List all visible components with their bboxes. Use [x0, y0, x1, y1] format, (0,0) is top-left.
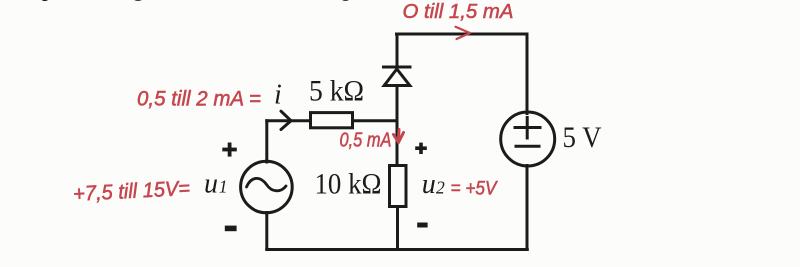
svg-text:0,5 mA: 0,5 mA [340, 129, 392, 152]
svg-text:1: 1 [219, 176, 228, 196]
svg-text:O till 1,5 mA: O till 1,5 mA [403, 1, 514, 23]
svg-text:i: i [274, 80, 282, 111]
svg-text:0,5 till 2 mA =: 0,5 till 2 mA = [137, 88, 261, 111]
svg-text:5 kΩ: 5 kΩ [309, 75, 364, 108]
svg-text:u: u [422, 169, 436, 200]
svg-text:5 V: 5 V [563, 121, 602, 154]
svg-text:10 kΩ: 10 kΩ [315, 168, 382, 201]
svg-text:u: u [204, 168, 218, 199]
svg-text:2: 2 [436, 178, 445, 198]
svg-text:= +5V: = +5V [451, 179, 499, 200]
